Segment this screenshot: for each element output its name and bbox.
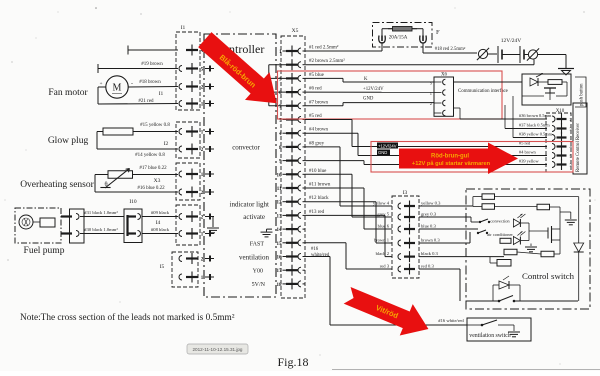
- svg-text:black 2: black 2: [376, 251, 390, 256]
- svg-text:M: M: [113, 83, 122, 94]
- svg-text:#16 white/red: #16 white/red: [438, 318, 464, 323]
- svg-text:Note:The cross section of the: Note:The cross section of the leads not …: [20, 312, 235, 323]
- svg-text:#6 red: #6 red: [309, 87, 322, 92]
- svg-text:indicator light: indicator light: [230, 201, 270, 209]
- svg-text:#36 brown 0.5mm: #36 brown 0.5mm: [519, 113, 552, 118]
- svg-text:5V/N: 5V/N: [252, 282, 266, 288]
- svg-text:+12V/24V: +12V/24V: [363, 87, 384, 92]
- svg-text:blue 0.3: blue 0.3: [421, 224, 437, 229]
- svg-text:#14 yellow 0.8: #14 yellow 0.8: [135, 153, 165, 158]
- svg-text:Glow plug: Glow plug: [48, 136, 89, 146]
- svg-text:1: 1: [570, 136, 572, 141]
- svg-text:brown 1: brown 1: [374, 238, 390, 243]
- svg-text:#21 red: #21 red: [138, 99, 154, 104]
- svg-text:#10 blue: #10 blue: [309, 169, 327, 174]
- svg-text:GND: GND: [378, 150, 387, 155]
- svg-text:13: 13: [277, 214, 283, 219]
- svg-text:#16 blue 0.22: #16 blue 0.22: [137, 186, 165, 191]
- svg-text:#30 black 1.0mm²: #30 black 1.0mm²: [84, 227, 118, 232]
- svg-text:brown 0.3: brown 0.3: [421, 238, 440, 243]
- svg-text:I1: I1: [181, 25, 186, 31]
- svg-text:#17 blue 0.22: #17 blue 0.22: [139, 166, 167, 171]
- svg-text:17: 17: [277, 269, 283, 274]
- svg-text:20A/15A: 20A/15A: [389, 36, 408, 41]
- svg-text:#18 red 2.5mm²: #18 red 2.5mm²: [435, 46, 466, 52]
- svg-text:ventilation: ventilation: [239, 253, 269, 261]
- svg-text:convector: convector: [232, 144, 260, 152]
- svg-text:10: 10: [277, 173, 283, 178]
- svg-text:2012-11-10-12.15.31.jpg: 2012-11-10-12.15.31.jpg: [193, 347, 243, 352]
- svg-text:θ: θ: [104, 181, 107, 188]
- svg-text:#5 red: #5 red: [309, 114, 322, 119]
- svg-text:+: +: [100, 82, 103, 87]
- svg-text:#37 black 0.5mm: #37 black 0.5mm: [519, 123, 550, 128]
- svg-text:+12V på gul startar värmaren: +12V på gul startar värmaren: [412, 160, 491, 167]
- svg-text:#4 brown: #4 brown: [309, 128, 329, 133]
- svg-text:blue 6: blue 6: [378, 224, 390, 229]
- svg-text:I1: I1: [159, 91, 164, 97]
- svg-text:GND: GND: [363, 97, 374, 102]
- svg-text:#11 brown: #11 brown: [309, 183, 331, 188]
- svg-text:K: K: [364, 77, 368, 82]
- svg-text:#16: #16: [311, 247, 319, 252]
- svg-text:2: 2: [430, 101, 432, 106]
- svg-text:#15 yellow 0.8: #15 yellow 0.8: [140, 123, 170, 128]
- svg-text:X6: X6: [441, 73, 448, 78]
- svg-text:+12V/24V: +12V/24V: [378, 143, 397, 148]
- svg-text:#09 black: #09 black: [151, 210, 170, 215]
- svg-text:#38 yellow 0.5mm: #38 yellow 0.5mm: [519, 132, 553, 137]
- svg-text:12V/24V: 12V/24V: [501, 38, 522, 44]
- svg-text:#19 brown: #19 brown: [141, 62, 163, 67]
- svg-text:air conditioner: air conditioner: [487, 232, 513, 237]
- svg-text:Fan motor: Fan motor: [48, 88, 88, 98]
- svg-text:Communication interface: Communication interface: [458, 89, 508, 94]
- svg-text:#13 red: #13 red: [309, 210, 325, 215]
- svg-text:15: 15: [277, 242, 283, 247]
- svg-text:I5: I5: [160, 264, 165, 270]
- svg-text:#4 brown: #4 brown: [519, 150, 537, 155]
- svg-text:ventilation switch: ventilation switch: [469, 333, 510, 339]
- svg-text:yellow 0.3: yellow 0.3: [421, 201, 441, 206]
- svg-text:I2: I2: [164, 141, 169, 147]
- svg-text:red 3: red 3: [380, 264, 390, 269]
- svg-text:2: 2: [570, 117, 572, 122]
- svg-text:#8 grey: #8 grey: [309, 141, 325, 146]
- svg-text:activate: activate: [243, 213, 265, 221]
- svg-text:Overheating sensor: Overheating sensor: [20, 180, 94, 190]
- svg-text:yellow 4: yellow 4: [373, 201, 390, 206]
- svg-text:red 0.3: red 0.3: [421, 264, 434, 269]
- svg-text:black 0.3: black 0.3: [421, 251, 439, 256]
- svg-text:Fig.18: Fig.18: [277, 355, 308, 369]
- svg-text:18: 18: [277, 283, 283, 288]
- svg-text:grey 0.3: grey 0.3: [421, 212, 437, 217]
- svg-text:Remote Control Receiver: Remote Control Receiver: [576, 123, 581, 172]
- svg-text:14: 14: [277, 228, 283, 233]
- svg-text:16: 16: [277, 256, 283, 261]
- svg-text:Control switch: Control switch: [522, 271, 575, 281]
- svg-text:#1 red 2.5mm²: #1 red 2.5mm²: [309, 45, 339, 51]
- svg-text:I10: I10: [129, 199, 137, 205]
- svg-text:#2 brown 2.5mm²: #2 brown 2.5mm²: [309, 58, 345, 64]
- svg-text:X3: X3: [154, 178, 161, 184]
- svg-text:FAST: FAST: [250, 242, 265, 248]
- svg-text:12: 12: [277, 201, 283, 206]
- svg-text:Y00: Y00: [253, 268, 263, 274]
- svg-text:#18 brown: #18 brown: [139, 80, 161, 85]
- svg-text:F: F: [436, 29, 440, 36]
- svg-text:11: 11: [277, 187, 282, 192]
- svg-text:#31 black 1.0mm²: #31 black 1.0mm²: [84, 210, 118, 215]
- svg-text:Röd-brun-gul: Röd-brun-gul: [431, 153, 469, 159]
- svg-text:#7 brown: #7 brown: [309, 100, 329, 105]
- svg-text:#12 black: #12 black: [309, 196, 329, 201]
- svg-text:I4: I4: [156, 220, 161, 226]
- svg-text:#5 blue: #5 blue: [309, 73, 325, 78]
- svg-text:-: -: [131, 81, 133, 87]
- svg-text:grey 5: grey 5: [377, 212, 389, 217]
- svg-text:X5: X5: [292, 28, 299, 34]
- svg-text:Fuel pump: Fuel pump: [24, 246, 65, 256]
- svg-text:convection: convection: [490, 219, 510, 224]
- svg-text:1: 1: [430, 91, 432, 96]
- svg-text:white/red: white/red: [311, 253, 330, 258]
- svg-text:#39 yellow: #39 yellow: [519, 159, 539, 164]
- svg-text:#08 black: #08 black: [151, 227, 170, 232]
- svg-text:I3: I3: [403, 190, 408, 196]
